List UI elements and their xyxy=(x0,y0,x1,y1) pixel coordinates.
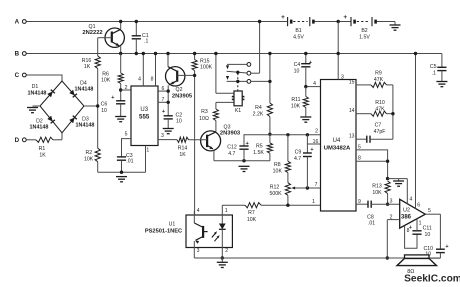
svg-text:13: 13 xyxy=(349,134,355,140)
svg-text:U2: U2 xyxy=(403,208,410,214)
svg-text:3: 3 xyxy=(390,199,393,205)
svg-text:10: 10 xyxy=(176,119,182,125)
svg-text:B2: B2 xyxy=(361,28,367,34)
svg-text:U4: U4 xyxy=(333,138,341,144)
svg-text:4: 4 xyxy=(313,81,316,87)
svg-text:Q2: Q2 xyxy=(176,87,183,93)
svg-text:4: 4 xyxy=(138,77,141,83)
svg-text:1N4148: 1N4148 xyxy=(30,125,49,131)
svg-text:10: 10 xyxy=(294,69,300,75)
svg-text:D: D xyxy=(15,137,20,144)
svg-text:R10: R10 xyxy=(375,100,385,106)
svg-text:K1: K1 xyxy=(235,108,241,114)
svg-text:6: 6 xyxy=(417,203,420,209)
svg-text:10: 10 xyxy=(101,108,107,114)
svg-text:C2: C2 xyxy=(176,113,183,119)
svg-text:R12: R12 xyxy=(270,185,280,191)
svg-text:4: 4 xyxy=(410,197,413,203)
svg-text:C7: C7 xyxy=(375,123,382,129)
svg-text:4.7: 4.7 xyxy=(294,156,301,162)
svg-text:1N4148: 1N4148 xyxy=(75,87,94,93)
svg-text:7: 7 xyxy=(315,182,318,188)
svg-text:R9: R9 xyxy=(375,71,382,77)
svg-text:1: 1 xyxy=(146,148,149,154)
svg-text:2N2222: 2N2222 xyxy=(82,30,102,36)
svg-text:10K: 10K xyxy=(273,168,283,174)
svg-text:2N3905: 2N3905 xyxy=(172,93,193,99)
svg-text:1: 1 xyxy=(419,220,422,226)
svg-text:D1: D1 xyxy=(32,84,39,90)
svg-text:1.5V: 1.5V xyxy=(359,34,370,40)
svg-text:R5: R5 xyxy=(256,144,263,150)
svg-text:5: 5 xyxy=(125,132,128,138)
svg-text:555: 555 xyxy=(139,114,150,121)
svg-text:47K: 47K xyxy=(375,106,385,112)
svg-text:B1: B1 xyxy=(295,28,301,34)
svg-text:1N4148: 1N4148 xyxy=(28,91,47,97)
svg-text:+: + xyxy=(409,225,412,231)
svg-text:1K: 1K xyxy=(39,153,46,159)
svg-text:R8: R8 xyxy=(274,162,281,168)
svg-text:10K: 10K xyxy=(247,217,257,223)
svg-text:C8: C8 xyxy=(367,215,374,221)
svg-text:10Ω: 10Ω xyxy=(199,116,209,122)
svg-text:R1: R1 xyxy=(39,146,46,152)
svg-text:+: + xyxy=(310,147,313,153)
svg-text:R4: R4 xyxy=(255,105,262,111)
svg-text:R11: R11 xyxy=(291,97,300,103)
svg-text:R14: R14 xyxy=(178,146,188,152)
svg-text:C: C xyxy=(15,72,20,79)
svg-text:C12: C12 xyxy=(227,145,237,151)
svg-text:R7: R7 xyxy=(248,210,255,216)
svg-text:B: B xyxy=(15,51,20,58)
svg-text:10K: 10K xyxy=(84,157,94,163)
svg-text:386: 386 xyxy=(401,215,412,221)
svg-text:10K: 10K xyxy=(372,190,382,196)
svg-text:C9: C9 xyxy=(295,149,302,155)
svg-text:5: 5 xyxy=(428,208,431,214)
svg-text:1K: 1K xyxy=(179,152,186,158)
svg-text:15: 15 xyxy=(349,79,355,85)
svg-text:7: 7 xyxy=(162,97,165,103)
svg-text:+: + xyxy=(246,141,249,147)
svg-text:R16: R16 xyxy=(82,58,92,64)
svg-text:4.7: 4.7 xyxy=(228,151,235,157)
svg-text:2.2K: 2.2K xyxy=(253,112,264,118)
svg-text:10K: 10K xyxy=(291,104,301,110)
svg-text:6: 6 xyxy=(162,86,165,92)
svg-text:4.5V: 4.5V xyxy=(293,34,304,40)
svg-text:1K: 1K xyxy=(84,64,91,70)
svg-text:R15: R15 xyxy=(200,58,210,64)
svg-text:U1: U1 xyxy=(169,222,176,228)
svg-text:C4: C4 xyxy=(294,62,301,68)
svg-text:.1: .1 xyxy=(144,38,148,44)
svg-text:Q1: Q1 xyxy=(89,24,96,30)
svg-text:2: 2 xyxy=(225,248,228,254)
svg-text:C6: C6 xyxy=(101,102,108,108)
svg-text:.01: .01 xyxy=(368,221,375,227)
svg-text:1.5K: 1.5K xyxy=(253,150,264,156)
svg-text:C11: C11 xyxy=(423,226,432,232)
svg-text:SeekIC.com: SeekIC.com xyxy=(404,274,460,285)
svg-text:.1: .1 xyxy=(432,71,436,77)
svg-text:R13: R13 xyxy=(372,184,382,190)
svg-text:3: 3 xyxy=(197,248,200,254)
svg-text:2: 2 xyxy=(125,85,128,91)
svg-text:47K: 47K xyxy=(374,77,384,83)
svg-text:14: 14 xyxy=(349,108,355,114)
svg-text:47pF: 47pF xyxy=(374,129,386,135)
svg-text:8: 8 xyxy=(151,77,154,83)
svg-text:10: 10 xyxy=(425,232,431,238)
svg-text:3: 3 xyxy=(161,133,164,139)
svg-text:+: + xyxy=(309,60,312,66)
svg-text:10K: 10K xyxy=(101,77,111,83)
svg-text:3: 3 xyxy=(341,75,344,81)
svg-text:1N4148: 1N4148 xyxy=(76,123,95,129)
svg-text:A: A xyxy=(15,19,20,26)
svg-text:PS2501-1NEC: PS2501-1NEC xyxy=(145,229,182,235)
svg-text:+: + xyxy=(343,14,347,21)
svg-text:U3: U3 xyxy=(140,107,148,113)
svg-text:1: 1 xyxy=(225,208,228,214)
svg-text:2: 2 xyxy=(315,128,318,134)
svg-text:R3: R3 xyxy=(201,109,208,115)
svg-text:2N3903: 2N3903 xyxy=(220,130,241,136)
svg-text:UM3482A: UM3482A xyxy=(324,146,351,152)
svg-text:500K: 500K xyxy=(269,191,282,197)
svg-text:R2: R2 xyxy=(85,150,92,156)
svg-text:+: + xyxy=(111,95,114,101)
svg-text:4: 4 xyxy=(197,208,200,214)
svg-text:100K: 100K xyxy=(200,65,213,71)
svg-text:1: 1 xyxy=(312,199,315,205)
svg-text:+: + xyxy=(281,14,285,21)
svg-text:+: + xyxy=(445,244,448,250)
svg-text:.01: .01 xyxy=(126,159,133,165)
svg-text:+: + xyxy=(162,109,165,115)
svg-text:C5: C5 xyxy=(430,64,437,70)
svg-text:16: 16 xyxy=(313,139,319,145)
